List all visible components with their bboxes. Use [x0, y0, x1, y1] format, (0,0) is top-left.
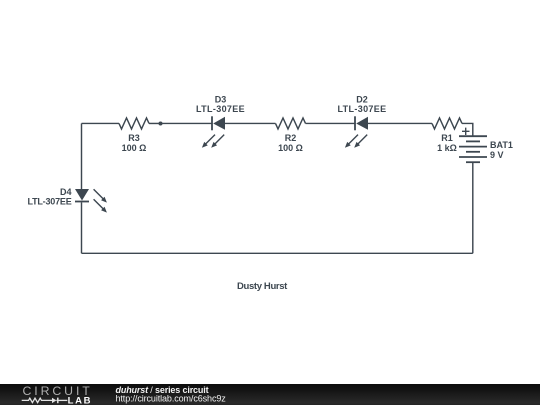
svg-text:LTL-307EE: LTL-307EE	[27, 197, 71, 207]
footer text line 2: circuit URL	[116, 393, 227, 403]
svg-text:9 V: 9 V	[490, 150, 504, 160]
LED D2 emission arrow 2	[354, 135, 367, 148]
wire: R1 to top-right corner then down to battery	[462, 123, 473, 136]
label D2	[356, 95, 368, 105]
wire: bottom horizontal	[82, 252, 473, 254]
LED D4 emission arrow 2	[94, 199, 107, 212]
wire: left vertical bottom segment (D4 to bottom corner)	[81, 202, 83, 253]
diode LED D2 cathode bar	[354, 116, 356, 130]
resistor R3	[119, 118, 149, 129]
label D3 part LTL-307EE	[196, 104, 245, 114]
wire: battery bottom down to bottom-right corner	[472, 162, 474, 253]
wire: top-left horizontal from corner to R3	[82, 122, 120, 124]
wire: R3 to junction	[149, 122, 161, 124]
diode LED D4 triangle	[75, 189, 89, 201]
svg-text:D4: D4	[60, 187, 72, 197]
svg-text:http://circuitlab.com/c6shc9z: http://circuitlab.com/c6shc9z	[116, 393, 227, 403]
svg-text:1 kΩ: 1 kΩ	[437, 143, 457, 153]
label R2 value 100 Ω	[278, 143, 303, 153]
label R1 value 1 kΩ	[437, 143, 457, 153]
label D3	[215, 95, 227, 105]
label R3	[128, 133, 140, 143]
footer text line 1: duhurst / series circuit	[116, 385, 209, 395]
label R1	[441, 133, 453, 143]
svg-text:LTL-307EE: LTL-307EE	[338, 104, 387, 114]
label BAT1	[490, 140, 513, 150]
CircuitLab logo word CIRCUIT	[23, 384, 93, 398]
LED D3 emission arrow 2	[211, 135, 224, 148]
svg-text:100 Ω: 100 Ω	[122, 143, 147, 153]
resistor R2	[276, 118, 306, 129]
label D4 part LTL-307EE	[27, 197, 71, 207]
label D2 part LTL-307EE	[338, 104, 387, 114]
resistor R1	[432, 118, 462, 129]
svg-text:LTL-307EE: LTL-307EE	[196, 104, 245, 114]
svg-text:R2: R2	[285, 133, 297, 143]
diode LED D2 triangle	[356, 117, 368, 130]
wire: junction to D3	[161, 122, 213, 124]
CircuitLab logo schematic squiggle (resistor + diode)	[22, 398, 68, 404]
wire: D3 to R2	[225, 122, 276, 124]
svg-text:LAB: LAB	[68, 396, 93, 405]
label D4	[60, 187, 72, 197]
CircuitLab logo word LAB	[68, 396, 93, 405]
LED D3 emission arrow 1	[202, 135, 215, 148]
battery BAT1 plates	[459, 136, 487, 162]
svg-text:D3: D3	[215, 95, 227, 105]
svg-text:BAT1: BAT1	[490, 140, 513, 150]
LED D4 emission arrow 1	[94, 189, 107, 202]
label R2	[285, 133, 297, 143]
footer black bar	[0, 384, 540, 405]
diode LED D3 cathode bar	[211, 116, 213, 130]
LED D2 emission arrow 1	[345, 135, 358, 148]
svg-text:D2: D2	[356, 95, 368, 105]
text: author name Dusty Hurst	[237, 281, 288, 292]
wire: R2 to D2	[306, 122, 356, 124]
svg-text:100 Ω: 100 Ω	[278, 143, 303, 153]
svg-text:R1: R1	[441, 133, 453, 143]
svg-text:Dusty Hurst: Dusty Hurst	[237, 281, 288, 292]
diode LED D4 cathode bar	[75, 201, 89, 203]
battery BAT1 plus sign	[462, 128, 470, 135]
diode LED D3 triangle	[213, 117, 225, 130]
node junction dot	[159, 121, 163, 125]
label R3 value 100 Ω	[122, 143, 147, 153]
wire: left vertical top segment (corner to D4)	[81, 123, 83, 189]
wire: D2 to R1	[368, 122, 432, 124]
label BAT1 value 9 V	[490, 150, 504, 160]
svg-text:R3: R3	[128, 133, 140, 143]
